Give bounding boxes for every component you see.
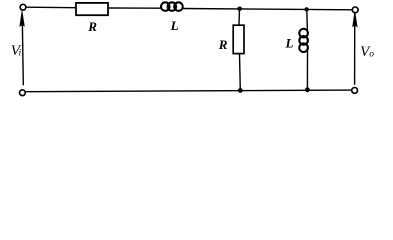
wire shunt L upper lead (306, 9, 309, 30)
inductor L (shunt) loops (299, 29, 308, 52)
svg-text:R: R (218, 37, 228, 52)
wire shunt L lower lead (306, 51, 308, 90)
resistor R (series) (76, 3, 108, 15)
terminal bottom-left (Vi -) (20, 90, 26, 96)
inductor L (series) loops (161, 2, 183, 11)
svg-text:R: R (87, 19, 97, 34)
svg-text:L: L (170, 18, 179, 33)
wire top rail middle segment (109, 7, 162, 9)
arrow Vo (output voltage) (353, 11, 357, 26)
wire shunt R lower lead (239, 54, 242, 90)
wire top rail left segment (26, 6, 75, 9)
wire shunt R upper lead (238, 9, 241, 25)
node junction dot top of shunt R (237, 7, 242, 12)
terminal top-left (Vi +) (20, 4, 26, 10)
terminal top-right (Vo +) (352, 7, 358, 13)
node junction dot top of shunt L (304, 7, 308, 11)
wire top rail right segment (182, 9, 353, 10)
arrow Vi (input voltage) (20, 11, 24, 26)
terminal bottom-right (Vo -) (352, 88, 358, 94)
resistor R (shunt) (233, 25, 244, 53)
svg-text:o: o (369, 50, 374, 60)
wire bottom rail (26, 90, 352, 92)
svg-text:L: L (285, 35, 294, 50)
node junction dot bottom of shunt L (305, 87, 310, 92)
node junction dot bottom of shunt R (238, 88, 243, 93)
